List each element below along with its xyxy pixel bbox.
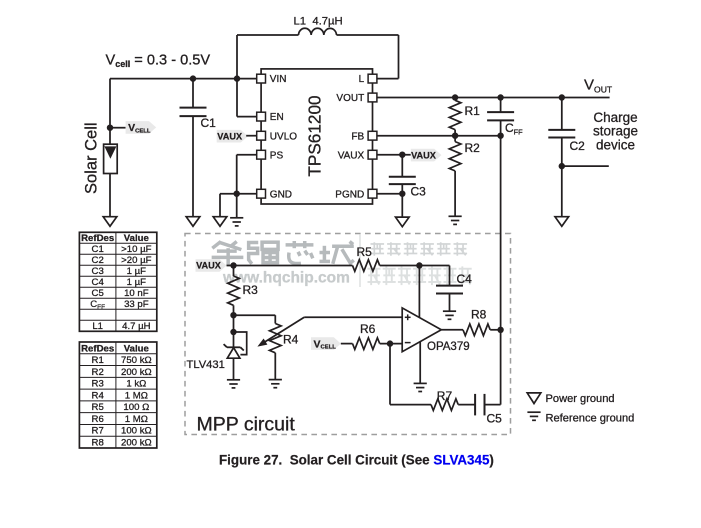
svg-text:R5: R5: [92, 402, 104, 413]
svg-text:Figure 27. Solar Cell Circuit: Figure 27. Solar Cell Circuit (See SLVA3…: [219, 452, 494, 467]
svg-text:R4: R4: [92, 390, 105, 401]
svg-text:VAUX: VAUX: [338, 150, 365, 161]
svg-text:OPA379: OPA379: [427, 341, 470, 353]
svg-text:Power ground: Power ground: [546, 393, 615, 405]
svg-text:FB: FB: [351, 131, 364, 142]
svg-text:R6: R6: [360, 322, 376, 336]
svg-text:R1: R1: [92, 355, 104, 366]
svg-text:R3: R3: [243, 283, 259, 297]
svg-text:UVLO: UVLO: [270, 131, 297, 142]
svg-text:storage: storage: [593, 124, 638, 139]
svg-text:>20 µF: >20 µF: [121, 255, 151, 266]
svg-text:Solar Cell: Solar Cell: [83, 122, 101, 194]
svg-text:Charge: Charge: [593, 110, 637, 125]
svg-text:200 kΩ: 200 kΩ: [121, 438, 152, 449]
svg-text:Value: Value: [124, 233, 149, 244]
svg-text:VAUX: VAUX: [196, 261, 222, 271]
svg-text:>10 µF: >10 µF: [121, 244, 151, 255]
svg-text:R6: R6: [92, 414, 104, 425]
svg-text:www.hqchip.com: www.hqchip.com: [222, 270, 350, 287]
svg-text:C1: C1: [92, 244, 104, 255]
svg-text:R3: R3: [92, 379, 104, 390]
svg-text:L: L: [359, 74, 365, 85]
svg-text:C4: C4: [92, 277, 105, 288]
svg-text:1 µF: 1 µF: [127, 266, 147, 277]
svg-text:1 MΩ: 1 MΩ: [125, 390, 148, 401]
svg-text:R5: R5: [357, 245, 373, 259]
svg-text:1 kΩ: 1 kΩ: [126, 379, 146, 390]
svg-text:EN: EN: [270, 112, 284, 123]
svg-text:Reference ground: Reference ground: [546, 413, 635, 425]
svg-text:R1: R1: [465, 104, 481, 118]
svg-text:R2: R2: [92, 367, 104, 378]
svg-text:R4: R4: [283, 332, 299, 346]
svg-text:R8: R8: [92, 438, 104, 449]
svg-text:R7: R7: [437, 389, 453, 403]
svg-text:200 kΩ: 200 kΩ: [121, 367, 152, 378]
svg-text:C5: C5: [92, 288, 104, 299]
svg-text:Value: Value: [124, 343, 149, 354]
svg-text:VOUT: VOUT: [336, 93, 364, 104]
svg-text:1 MΩ: 1 MΩ: [125, 414, 148, 425]
svg-text:C2: C2: [92, 255, 104, 266]
svg-text:10 nF: 10 nF: [124, 288, 149, 299]
svg-text:C4: C4: [457, 272, 473, 286]
svg-text:device: device: [596, 138, 635, 153]
svg-text:TPS61200: TPS61200: [305, 95, 325, 176]
svg-text:C3: C3: [411, 184, 427, 198]
svg-text:750 kΩ: 750 kΩ: [121, 355, 152, 366]
svg-text:PS: PS: [270, 150, 284, 161]
svg-text:100 Ω: 100 Ω: [123, 402, 149, 413]
svg-text:RefDes: RefDes: [81, 343, 114, 354]
svg-text:4.7 µH: 4.7 µH: [122, 321, 151, 332]
svg-text:R8: R8: [471, 307, 487, 321]
svg-text:L1 4.7µH: L1 4.7µH: [294, 16, 343, 28]
svg-text:C1: C1: [201, 116, 217, 130]
svg-text:C2: C2: [570, 139, 586, 153]
svg-text:L1: L1: [92, 321, 103, 332]
svg-text:PGND: PGND: [335, 189, 364, 200]
svg-text:TLV431: TLV431: [187, 359, 225, 371]
svg-text:C5: C5: [487, 411, 503, 425]
svg-text:VAUX: VAUX: [411, 150, 437, 160]
svg-text:VAUX: VAUX: [217, 131, 243, 141]
svg-text:100 kΩ: 100 kΩ: [121, 426, 152, 437]
svg-text:VIN: VIN: [270, 74, 287, 85]
svg-text:MPP circuit: MPP circuit: [197, 413, 296, 435]
svg-text:RefDes: RefDes: [81, 233, 114, 244]
svg-text:R2: R2: [465, 141, 481, 155]
svg-text:1 µF: 1 µF: [127, 277, 147, 288]
svg-text:C3: C3: [92, 266, 104, 277]
svg-text:R7: R7: [92, 426, 104, 437]
svg-text:GND: GND: [270, 189, 292, 200]
svg-text:33 pF: 33 pF: [124, 299, 149, 310]
